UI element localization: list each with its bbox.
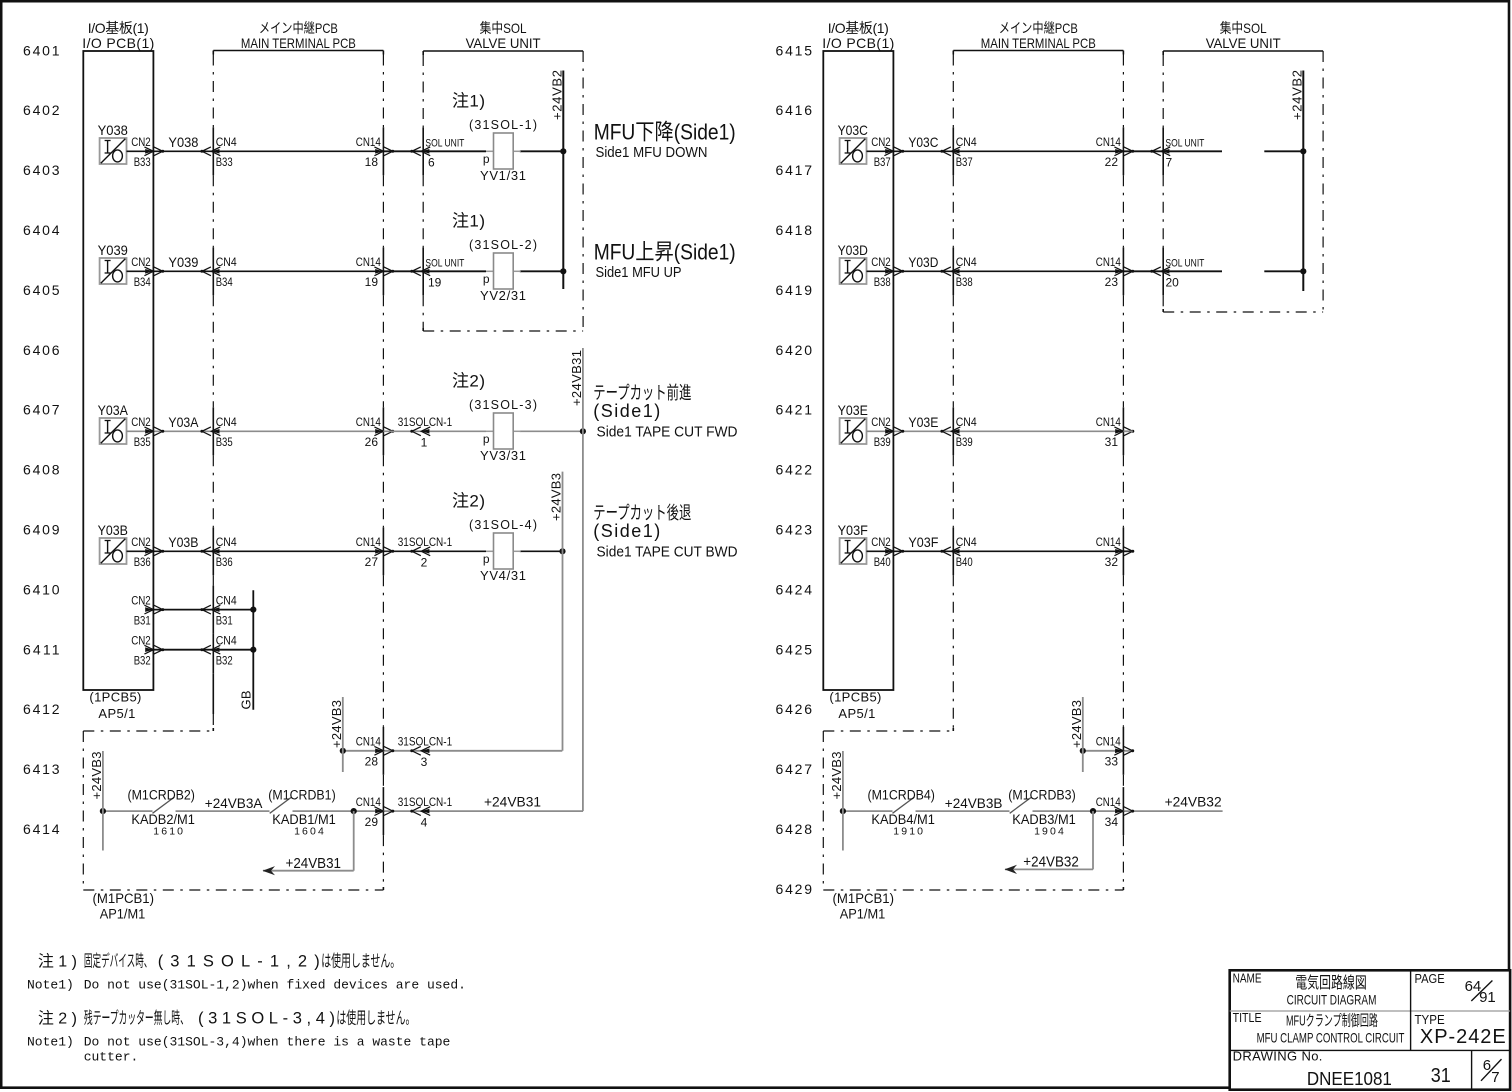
svg-text:31: 31 [1431,1065,1451,1087]
svg-text:CN14: CN14 [1096,735,1121,749]
svg-text:注1): 注1) [452,92,485,111]
svg-text:Y03C: Y03C [908,134,938,150]
svg-text:Y03B: Y03B [98,522,128,538]
svg-text:CN4: CN4 [956,135,977,149]
svg-text:Note1): Note1) [27,1035,74,1050]
svg-text:+24VB31: +24VB31 [286,856,342,872]
svg-text:6414: 6414 [23,821,60,837]
svg-text:p: p [483,152,490,166]
svg-text:CN14: CN14 [356,735,381,749]
svg-text:+24VB3A: +24VB3A [205,795,263,811]
svg-text:CN14: CN14 [356,535,381,549]
svg-text:28: 28 [365,755,379,769]
svg-text:B35: B35 [216,435,233,449]
svg-text:CN4: CN4 [216,415,237,429]
svg-text:は使用しません。: は使用しません。 [336,1008,415,1027]
svg-text:SOL UNIT: SOL UNIT [1165,137,1204,149]
svg-text:6421: 6421 [776,402,813,418]
svg-text:6: 6 [428,156,435,170]
svg-text:Side1 MFU UP: Side1 MFU UP [596,264,682,281]
svg-text:19: 19 [428,276,442,290]
svg-text:+24VB31: +24VB31 [484,794,541,810]
svg-text:Y038: Y038 [98,122,128,138]
svg-text:集中SOL: 集中SOL [1220,20,1267,36]
svg-text:23: 23 [1105,275,1119,289]
svg-text:DNEE1081: DNEE1081 [1307,1069,1392,1089]
svg-text:B37: B37 [874,155,891,169]
svg-text:CN2: CN2 [871,135,891,149]
svg-text:31SOLCN-1: 31SOLCN-1 [398,735,453,749]
svg-text:固定デバイス時、: 固定デバイス時、 [84,951,152,971]
svg-text:Note1): Note1) [27,978,74,993]
svg-text:Y03D: Y03D [838,242,868,258]
svg-text:AP5/1: AP5/1 [838,706,875,721]
svg-text:CN14: CN14 [1096,535,1121,549]
svg-text:6405: 6405 [23,282,60,298]
svg-text:(M1CRDB3): (M1CRDB3) [1008,788,1075,803]
svg-text:6423: 6423 [776,522,813,538]
svg-text:6407: 6407 [23,402,60,418]
svg-text:CN2: CN2 [871,415,891,429]
svg-text:CN14: CN14 [356,135,381,149]
svg-text:6402: 6402 [23,102,60,118]
svg-text:MFUクランプ制御回路: MFUクランプ制御回路 [1286,1013,1378,1030]
svg-text:B35: B35 [134,435,151,449]
svg-text:6404: 6404 [23,222,60,238]
svg-text:29: 29 [365,815,379,829]
svg-text:メイン中継PCB: メイン中継PCB [999,20,1078,36]
svg-text:SOL UNIT: SOL UNIT [425,137,464,149]
svg-text:6413: 6413 [23,761,60,777]
svg-text:+24VB31: +24VB31 [569,350,584,406]
svg-text:Do not use(31SOL-1,2)when fixe: Do not use(31SOL-1,2)when fixed devices … [84,978,466,993]
svg-text:(M1PCB1): (M1PCB1) [93,891,155,906]
svg-text:B38: B38 [874,275,891,289]
svg-text:CN4: CN4 [956,255,977,269]
svg-text:(31SOL-2): (31SOL-2) [469,238,537,252]
svg-text:AP5/1: AP5/1 [98,706,135,721]
svg-text:6406: 6406 [23,342,60,358]
svg-text:B40: B40 [874,555,891,569]
svg-text:MAIN TERMINAL PCB: MAIN TERMINAL PCB [981,35,1096,51]
svg-text:3: 3 [421,755,428,769]
svg-text:(M1CRDB4): (M1CRDB4) [868,788,935,803]
svg-text:B31: B31 [134,613,151,627]
svg-text:Y03F: Y03F [838,522,868,538]
svg-text:Side1 TAPE CUT BWD: Side1 TAPE CUT BWD [597,544,738,561]
svg-text:B33: B33 [134,155,151,169]
svg-text:Side1 MFU DOWN: Side1 MFU DOWN [596,144,708,161]
svg-text:p: p [483,552,490,566]
svg-text:B37: B37 [956,155,973,169]
svg-text:VALVE UNIT: VALVE UNIT [1206,35,1281,51]
svg-text:I/O PCB(1): I/O PCB(1) [822,35,894,51]
svg-text:6416: 6416 [776,102,813,118]
svg-text:MFU下降(Side1): MFU下降(Side1) [594,119,736,144]
svg-text:+24VB3B: +24VB3B [945,795,1003,811]
svg-text:19: 19 [365,275,379,289]
svg-text:電気回路線図: 電気回路線図 [1295,974,1367,992]
svg-text:YV4/31: YV4/31 [480,568,526,583]
svg-text:CN4: CN4 [216,535,237,549]
svg-text:6408: 6408 [23,462,60,478]
svg-text:YV3/31: YV3/31 [480,448,526,463]
svg-text:1604: 1604 [294,826,324,838]
svg-text:テープカット前進: テープカット前進 [593,383,691,403]
svg-text:+24VB2: +24VB2 [550,70,565,120]
svg-text:p: p [483,272,490,286]
svg-text:1: 1 [421,436,428,450]
svg-text:B36: B36 [216,555,233,569]
svg-text:TYPE: TYPE [1415,1012,1445,1027]
svg-text:CN14: CN14 [356,255,381,269]
svg-text:1910: 1910 [893,826,923,838]
svg-text:27: 27 [365,555,379,569]
svg-text:+24VB32: +24VB32 [1023,855,1079,871]
svg-text:B39: B39 [874,435,891,449]
svg-text:(31SOL-3): (31SOL-3) [469,398,537,412]
svg-text:31SOLCN-1: 31SOLCN-1 [398,535,453,549]
svg-text:TITLE: TITLE [1233,1010,1262,1025]
svg-text:Y03A: Y03A [168,414,199,430]
svg-text:Y03D: Y03D [908,254,938,270]
svg-text:1904: 1904 [1034,826,1064,838]
svg-text:Y03A: Y03A [98,402,129,418]
svg-text:注2): 注2) [452,372,485,391]
svg-text:I/O PCB(1): I/O PCB(1) [82,35,154,51]
svg-text:(1PCB5): (1PCB5) [89,690,141,705]
svg-text:B33: B33 [216,155,233,169]
svg-text:18: 18 [365,155,379,169]
svg-text:YV2/31: YV2/31 [480,288,526,303]
svg-text:メイン中継PCB: メイン中継PCB [259,20,338,36]
svg-text:I/O基板(1): I/O基板(1) [88,20,149,36]
svg-text:注1): 注1) [38,953,77,971]
svg-text:CN14: CN14 [356,415,381,429]
svg-text:B38: B38 [956,275,973,289]
svg-text:+24VB3: +24VB3 [549,473,564,521]
svg-text:CN14: CN14 [356,795,381,809]
svg-text:+24VB3: +24VB3 [829,752,844,800]
svg-text:Do not use(31SOL-3,4)when ther: Do not use(31SOL-3,4)when there is a was… [84,1035,451,1050]
svg-text:6419: 6419 [776,282,813,298]
svg-text:CN2: CN2 [131,535,151,549]
svg-text:(31SOL-4): (31SOL-4) [469,518,537,532]
svg-text:AP1/M1: AP1/M1 [100,907,146,922]
svg-text:CN2: CN2 [131,415,151,429]
svg-text:CN2: CN2 [131,255,151,269]
svg-text:B34: B34 [216,275,233,289]
svg-text:31SOLCN-1: 31SOLCN-1 [398,415,453,429]
svg-text:SOL UNIT: SOL UNIT [1165,257,1204,269]
svg-text:91: 91 [1479,989,1496,1006]
svg-text:CN4: CN4 [216,255,237,269]
svg-text:MFU CLAMP CONTROL CIRCUIT: MFU CLAMP CONTROL CIRCUIT [1257,1029,1405,1045]
svg-text:VALVE UNIT: VALVE UNIT [466,35,541,51]
svg-text:33: 33 [1105,755,1119,769]
svg-text:MFU上昇(Side1): MFU上昇(Side1) [594,239,736,264]
svg-text:6418: 6418 [776,222,813,238]
svg-text:6401: 6401 [23,42,60,58]
svg-text:MAIN TERMINAL PCB: MAIN TERMINAL PCB [241,35,356,51]
svg-text:Y03E: Y03E [908,414,938,430]
svg-text:6412: 6412 [23,701,60,717]
svg-text:6420: 6420 [776,342,813,358]
svg-text:(Side1): (Side1) [593,521,660,541]
svg-text:7: 7 [1491,1069,1499,1086]
svg-text:CIRCUIT DIAGRAM: CIRCUIT DIAGRAM [1287,991,1377,1007]
svg-text:B40: B40 [956,555,973,569]
svg-text:Y03C: Y03C [838,122,868,138]
svg-text:B34: B34 [134,275,151,289]
svg-text:Y038: Y038 [168,134,198,150]
svg-text:CN2: CN2 [131,593,151,607]
svg-text:+24VB3: +24VB3 [1069,700,1084,748]
svg-text:は使用しません。: は使用しません。 [321,952,400,971]
svg-text:Y03F: Y03F [908,534,938,550]
svg-text:6427: 6427 [776,761,813,777]
svg-text:SOL UNIT: SOL UNIT [425,257,464,269]
svg-text:Y039: Y039 [98,242,128,258]
svg-text:GB: GB [239,691,254,710]
svg-text:XP-242E: XP-242E [1420,1026,1506,1048]
svg-text:B31: B31 [216,613,233,627]
svg-text:NAME: NAME [1233,971,1262,986]
svg-text:集中SOL: 集中SOL [480,20,527,36]
svg-text:32: 32 [1105,555,1119,569]
svg-text:p: p [483,432,490,446]
svg-text:6409: 6409 [23,522,60,538]
svg-text:(Side1): (Side1) [593,401,660,421]
svg-text:(M1CRDB2): (M1CRDB2) [128,788,195,803]
svg-text:+24VB3: +24VB3 [329,700,344,748]
svg-text:+24VB2: +24VB2 [1290,70,1305,120]
svg-text:(31SOL-1): (31SOL-1) [469,118,537,132]
svg-text:6425: 6425 [776,641,813,657]
svg-text:B36: B36 [134,555,151,569]
svg-text:CN4: CN4 [956,415,977,429]
svg-text:2: 2 [421,556,428,570]
svg-text:CN4: CN4 [956,535,977,549]
svg-text:6424: 6424 [776,581,813,597]
svg-text:31SOLCN-1: 31SOLCN-1 [398,795,453,809]
svg-text:CN14: CN14 [1096,795,1121,809]
svg-text:6426: 6426 [776,701,813,717]
svg-text:6429: 6429 [776,881,813,897]
svg-text:6403: 6403 [23,162,60,178]
svg-text:B32: B32 [216,653,233,667]
svg-text:PAGE: PAGE [1415,971,1445,986]
svg-text:YV1/31: YV1/31 [480,168,526,183]
svg-text:+24VB32: +24VB32 [1165,794,1222,810]
svg-text:注2): 注2) [38,1009,77,1027]
svg-text:34: 34 [1105,815,1119,829]
svg-text:26: 26 [365,435,379,449]
svg-text:(M1PCB1): (M1PCB1) [833,891,895,906]
svg-text:CN14: CN14 [1096,135,1121,149]
svg-text:CN2: CN2 [871,255,891,269]
svg-text:CN2: CN2 [131,135,151,149]
svg-text:テープカット後退: テープカット後退 [593,503,691,523]
svg-text:Y03B: Y03B [168,534,198,550]
svg-text:6415: 6415 [776,42,813,58]
svg-text:残テープカッター無し時、: 残テープカッター無し時、 [84,1008,189,1027]
svg-text:31: 31 [1105,435,1119,449]
svg-text:I/O基板(1): I/O基板(1) [828,20,889,36]
svg-text:Side1 TAPE CUT FWD: Side1 TAPE CUT FWD [597,424,738,441]
svg-text:CN2: CN2 [871,535,891,549]
svg-text:CN14: CN14 [1096,415,1121,429]
svg-text:CN14: CN14 [1096,255,1121,269]
svg-text:CN2: CN2 [131,634,151,648]
svg-text:B32: B32 [134,653,151,667]
svg-text:注2): 注2) [452,492,485,511]
svg-text:B39: B39 [956,435,973,449]
svg-text:6422: 6422 [776,462,813,478]
svg-text:CN4: CN4 [216,593,237,607]
svg-text:(1PCB5): (1PCB5) [829,690,881,705]
svg-text:DRAWING No.: DRAWING No. [1233,1049,1323,1064]
svg-text:cutter.: cutter. [84,1049,139,1064]
svg-text:6417: 6417 [776,162,813,178]
svg-text:Y039: Y039 [168,254,198,270]
svg-text:22: 22 [1105,155,1119,169]
svg-text:4: 4 [421,815,428,829]
svg-text:注1): 注1) [452,212,485,231]
svg-text:AP1/M1: AP1/M1 [840,907,886,922]
svg-text:+24VB3: +24VB3 [89,752,104,800]
svg-text:7: 7 [1166,156,1173,170]
svg-text:(M1CRDB1): (M1CRDB1) [268,788,335,803]
svg-text:Y03E: Y03E [838,402,868,418]
svg-text:CN4: CN4 [216,634,237,648]
svg-text:1610: 1610 [153,826,183,838]
svg-text:6428: 6428 [776,821,813,837]
svg-text:6410: 6410 [23,581,60,597]
svg-text:20: 20 [1166,276,1180,290]
svg-text:CN4: CN4 [216,135,237,149]
